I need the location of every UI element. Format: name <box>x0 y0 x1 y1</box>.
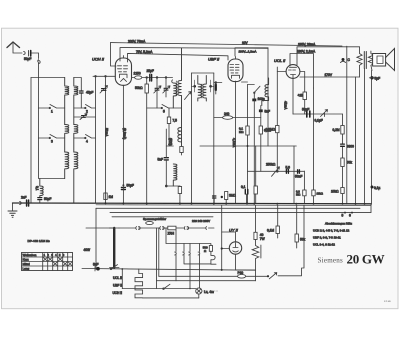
output transformer primary <box>357 47 362 77</box>
oscillator trimmer 2 <box>164 88 168 90</box>
cathode resistor 240 <box>223 116 233 120</box>
dropper bar top tick <box>110 227 120 229</box>
UBF grid stopper resistor <box>215 85 217 91</box>
tube UCH II grids <box>118 66 128 72</box>
heater dropper bar <box>113 228 115 268</box>
IF1 shield top <box>192 72 214 74</box>
detector cap 5nF <box>259 109 263 112</box>
svg-text:50k: 50k <box>347 161 353 165</box>
IF1 shield right <box>213 73 215 203</box>
resistor 50k <box>145 84 148 93</box>
oscillator trimmer 1 <box>155 88 159 90</box>
svg-text:UBF II: UBF II <box>113 284 122 288</box>
junction <box>156 77 158 79</box>
switch wire <box>122 288 196 290</box>
terminal 5 <box>344 212 346 214</box>
svg-text:Siemens: Siemens <box>318 256 343 264</box>
UCL cathode down <box>292 78 294 114</box>
svg-text:7,5: 7,5 <box>173 119 178 123</box>
padder resistor <box>167 117 170 124</box>
contact joint <box>24 52 26 55</box>
junction <box>121 268 123 270</box>
tuning box left rail <box>30 78 32 204</box>
selector resistor <box>168 226 176 230</box>
svg-text:(6,3mA): (6,3mA) <box>123 128 127 139</box>
socket contact a <box>175 244 177 281</box>
svg-text:UCL II: UCL II <box>274 58 286 63</box>
svg-text:0,1µ: 0,1µ <box>374 186 380 190</box>
bus junction dots <box>105 202 366 205</box>
shield box line 3 <box>112 216 213 218</box>
selector wire <box>86 227 115 229</box>
wire to vertical <box>278 205 304 275</box>
resistor 50k right <box>295 234 298 242</box>
tube UBF II top tick <box>235 57 237 60</box>
svg-text:180V...1,2mA: 180V...1,2mA <box>239 49 257 53</box>
rail 3 75V <box>128 53 229 62</box>
tube UBF II envelope <box>228 59 243 82</box>
pot cap <box>286 170 288 174</box>
heater chain squiggle <box>135 274 143 298</box>
svg-text:0,3MΩ: 0,3MΩ <box>266 128 276 132</box>
svg-text:DP-440 1/13 bis: DP-440 1/13 bis <box>28 239 51 243</box>
svg-text:50nF: 50nF <box>295 174 302 178</box>
tube UCL II grid <box>289 67 297 70</box>
wire antenna coil tap <box>39 138 65 179</box>
svg-text:0,1M: 0,1M <box>267 229 274 233</box>
capacitor 2nF on bus <box>27 200 29 206</box>
svg-text:51mA: 51mA <box>105 128 109 137</box>
bus components cap <box>213 196 216 198</box>
rail 180V drop <box>290 54 314 89</box>
feedback resistor 3 <box>341 188 344 194</box>
svg-text:Lang: Lang <box>23 267 30 271</box>
feedback resistor 1 <box>341 126 344 135</box>
IF1 cap left <box>193 85 196 88</box>
svg-text:5,0: 5,0 <box>286 165 291 169</box>
svg-text:200V, 76mA: 200V, 76mA <box>128 40 146 44</box>
ballast resistor 40 <box>254 232 257 239</box>
tap verticals <box>157 228 177 289</box>
svg-text:0,1: 0,1 <box>35 186 39 191</box>
svg-text:180V, 2,1mA: 180V, 2,1mA <box>297 50 316 54</box>
wire UBF to AVC <box>242 82 255 85</box>
svg-text:50µF: 50µF <box>302 108 309 112</box>
detector coil <box>262 78 269 106</box>
svg-text:40W: 40W <box>84 248 91 252</box>
svg-text:45pF: 45pF <box>86 91 93 95</box>
svg-text:3: 3 <box>51 140 53 144</box>
cathode step wire <box>184 263 211 265</box>
tube UBF II grids <box>230 65 239 73</box>
fuse to switch wire <box>246 275 268 277</box>
lamp dotted wire <box>202 290 218 292</box>
AF coupling vertical <box>303 171 305 204</box>
tube UCL II cathode <box>291 75 296 79</box>
osc tracking coil <box>178 128 182 142</box>
svg-text:UCL II: UCL II <box>113 276 122 280</box>
tube UCH II heater <box>121 79 127 82</box>
svg-text:1: 1 <box>51 110 53 114</box>
svg-text:6: 6 <box>349 214 351 218</box>
svg-text:UCH 2 3, 4-5 6, 7-8, 9-11: UCH 2 3, 4-5 6, 7-8, 9-11 12 <box>313 229 350 233</box>
urdox envelope bar <box>260 245 262 258</box>
tube UCH II cathode <box>120 74 128 78</box>
svg-text:UCH II: UCH II <box>92 57 105 62</box>
svg-text:195V, 28mA: 195V, 28mA <box>298 42 316 46</box>
junction <box>267 275 269 277</box>
svg-text:MΩ: MΩ <box>239 130 243 134</box>
main ground bus <box>13 202 372 205</box>
capacitor 50uF <box>121 187 125 189</box>
svg-text:Spannungswähler: Spannungswähler <box>143 217 166 221</box>
feedback chain vertical <box>342 114 344 204</box>
svg-text:5µF: 5µF <box>375 77 381 81</box>
svg-text:Mittel: Mittel <box>23 262 31 266</box>
svg-text:(500): (500) <box>169 138 173 145</box>
coil L2c <box>74 152 78 203</box>
band switch 1 <box>39 105 65 109</box>
resistor 0,3M <box>303 190 306 196</box>
cap 5uF speaker <box>370 76 373 79</box>
mains line bottom <box>82 269 256 271</box>
svg-text:20 GW: 20 GW <box>347 252 385 267</box>
osc transformer core <box>175 81 177 96</box>
socket contact b <box>183 244 185 264</box>
ballast feed <box>255 205 257 232</box>
svg-text:5: 5 <box>342 214 344 218</box>
rail 2 screen <box>120 48 268 62</box>
IF1 core <box>202 84 203 98</box>
socket contact c <box>189 244 191 289</box>
trimmer capacitor <box>82 116 86 118</box>
junction 50uF <box>122 184 124 186</box>
svg-text:50kΩ: 50kΩ <box>135 86 143 90</box>
tuning block right rail <box>95 76 97 203</box>
resistor 0.1M right <box>276 226 279 234</box>
svg-text:2: 2 <box>86 110 88 114</box>
ballast zigzag urdox <box>252 240 259 281</box>
speaker magnet <box>373 54 386 67</box>
tube UCH II top tick <box>122 56 124 59</box>
svg-text:1250: 1250 <box>134 72 141 76</box>
svg-text:123456: 123456 <box>44 253 67 257</box>
svg-text:+25: +25 <box>298 94 304 98</box>
wire 240 to shield <box>214 117 261 119</box>
padder switch row <box>147 105 181 109</box>
capacitor 50pF bottom <box>38 198 42 200</box>
coil L1b <box>65 125 69 153</box>
table column lines <box>43 253 68 271</box>
shield box line 1 <box>96 207 360 209</box>
svg-text:Kurz: Kurz <box>23 258 30 262</box>
osc feed resistor <box>180 147 183 153</box>
junction <box>165 77 167 79</box>
svg-text:0,1: 0,1 <box>241 185 246 189</box>
rail 195V <box>297 47 360 65</box>
svg-text:3MΩ: 3MΩ <box>229 194 236 198</box>
UCL grid wire <box>277 71 286 73</box>
coupling capacitor 45pF <box>74 78 82 109</box>
tuning box top wire <box>31 77 65 79</box>
tuning gang section 1 <box>102 89 107 91</box>
band switch 4 <box>74 135 96 139</box>
IF1 cap right <box>209 85 212 88</box>
ground <box>8 211 17 217</box>
svg-text:220 240 260V: 220 240 260V <box>192 219 210 223</box>
ground wire from bus <box>12 203 14 211</box>
line switch arrow <box>269 273 277 279</box>
long vertical 313 <box>313 88 315 203</box>
grid return wire <box>293 146 295 203</box>
svg-text:1M: 1M <box>109 195 114 199</box>
svg-text:10V: 10V <box>242 41 249 45</box>
output coupling cap <box>371 186 374 189</box>
resistor 10k mid right <box>312 190 315 196</box>
UY II wires <box>222 248 230 250</box>
anode line 170V <box>300 72 360 78</box>
svg-text:UCH II: UCH II <box>113 291 123 295</box>
IF1 shield left <box>191 73 193 203</box>
svg-text:240: 240 <box>224 112 230 116</box>
svg-text:6800: 6800 <box>347 145 354 149</box>
svg-text:5: 5 <box>163 110 165 114</box>
selector contacts right <box>176 227 214 230</box>
cathode caps <box>307 111 310 117</box>
HT rail vertical 1 <box>346 46 348 204</box>
UBF anode wires <box>235 81 237 203</box>
band switch 2 <box>74 105 96 109</box>
selector contacts <box>119 227 168 230</box>
volume pot line <box>248 170 305 172</box>
feedback cap <box>341 144 345 146</box>
svg-text:MΩ: MΩ <box>296 192 300 196</box>
svg-text:10kΩ: 10kΩ <box>317 192 323 196</box>
UY II feed vertical <box>221 205 223 270</box>
svg-text:0,2M: 0,2M <box>333 128 340 132</box>
UBF shield right drop <box>267 48 269 146</box>
AF coupling resistor <box>254 186 257 194</box>
anode wire right of UCH <box>132 77 173 79</box>
UY II cathode down <box>236 254 256 270</box>
capacitor 25uF <box>150 75 152 82</box>
svg-text:P60: P60 <box>238 271 244 275</box>
junction <box>95 76 97 78</box>
detector line down <box>253 93 255 203</box>
speaker cone <box>386 49 395 71</box>
svg-text:50pF: 50pF <box>44 197 51 201</box>
antenna lead wire <box>13 44 22 54</box>
svg-text:50pF: 50pF <box>24 57 31 61</box>
AGC line down <box>105 76 107 203</box>
detector cap 100pF <box>252 99 256 102</box>
svg-text:25µF: 25µF <box>147 69 154 73</box>
tube UCL II envelope <box>286 65 300 79</box>
smoothing cap Ca <box>342 58 345 61</box>
junction <box>105 76 107 78</box>
HT rail vertical 2 <box>355 77 357 204</box>
AVC resistor 0,1M <box>246 126 249 135</box>
AF cap <box>245 190 248 195</box>
surge resistor <box>209 246 212 252</box>
contact on bus <box>20 202 22 205</box>
mains blocking cap <box>96 267 100 271</box>
coil L1c <box>65 152 69 179</box>
dropper bar bottom tick <box>110 267 120 269</box>
terminal 6 <box>351 212 353 214</box>
junction <box>276 170 278 172</box>
tube UBF II cathode <box>232 75 240 78</box>
coil L2a secondary <box>74 78 78 125</box>
shield box line 2 <box>110 204 371 213</box>
bus lower line <box>96 204 371 207</box>
contact joint <box>38 60 40 64</box>
socket contact d lamp feed <box>198 244 200 288</box>
coil L3 wave trap <box>40 179 43 198</box>
IF osc secondary coil <box>173 164 177 186</box>
wire 50k down to bus <box>146 78 148 204</box>
left drop wire <box>95 208 97 269</box>
band switch 3 <box>39 135 65 139</box>
grid wire into UCH <box>93 75 115 77</box>
oscillator coil Lb <box>178 48 182 146</box>
resistor 1M <box>104 193 107 200</box>
wire down to band switch <box>38 63 40 108</box>
UCH cathode wire down <box>122 85 124 203</box>
wire switch column left <box>38 108 40 138</box>
svg-text:4,1mA: 4,1mA <box>232 138 236 148</box>
cathode bypass line <box>293 113 343 115</box>
svg-text:250kΩ: 250kΩ <box>266 162 276 166</box>
wire antenna to tuner <box>32 53 39 59</box>
svg-text:170V: 170V <box>325 73 333 77</box>
rail drop to UCH anode <box>111 43 117 66</box>
switched mains line <box>159 275 238 277</box>
padder cap 5nF <box>164 158 168 160</box>
svg-text:5nF: 5nF <box>265 110 271 114</box>
resistor 0,1M det <box>259 126 262 134</box>
coil L2b <box>74 125 78 153</box>
grid return vertical <box>276 67 278 171</box>
svg-text:ZRH: ZRH <box>168 232 175 236</box>
heater bus wire <box>166 228 211 246</box>
wire trimmer row <box>74 116 96 118</box>
oscillator coil La <box>173 83 177 108</box>
svg-text:75V, 5,2mA: 75V, 5,2mA <box>136 50 153 54</box>
feedback resistor 2 <box>341 158 344 167</box>
IF1 primary coil <box>198 76 202 102</box>
UY II cathode <box>233 251 239 252</box>
heater return line <box>143 297 199 299</box>
capacitor C1 50pF <box>28 51 30 57</box>
junction <box>247 145 249 147</box>
svg-text:c.t.us: c.t.us <box>384 299 391 303</box>
detector switch <box>254 86 260 92</box>
resistor to bus <box>178 187 181 194</box>
antenna <box>7 42 20 48</box>
svg-text:UBF 3, 6-9, 7-8 10-1: UBF 3, 6-9, 7-8 10-11 <box>313 236 341 240</box>
tone switch arrow <box>321 110 328 117</box>
IF trimmer arrow <box>185 92 192 100</box>
svg-text:UCL 3-4, 9 1: UCL 3-4, 9 11-12 <box>313 243 335 247</box>
coil L1a <box>65 78 69 125</box>
cathode resistor <box>303 92 307 100</box>
speaker return <box>371 71 373 205</box>
output transformer core <box>364 52 366 69</box>
table row lines <box>22 257 73 266</box>
mains switch <box>111 265 118 269</box>
heater return line <box>157 280 256 282</box>
svg-text:10kΩ: 10kΩ <box>331 190 339 194</box>
wave table frame <box>22 253 73 271</box>
table X marks <box>43 257 72 265</box>
svg-text:Ln, 4m: Ln, 4m <box>204 290 214 294</box>
tube UCH II envelope <box>115 58 131 85</box>
thermal hook <box>211 251 216 264</box>
rail 200V <box>111 43 343 46</box>
tube UY II envelope <box>229 242 241 254</box>
junction <box>146 77 148 79</box>
HT rail vertical 3 <box>364 69 366 205</box>
wire padder bottom <box>166 146 180 186</box>
svg-text:50µF: 50µF <box>127 184 134 188</box>
UY II anode <box>222 232 238 248</box>
svg-text:UBF II: UBF II <box>208 57 220 62</box>
junction <box>165 185 167 187</box>
svg-text:4: 4 <box>86 140 88 144</box>
IF1 secondary coil <box>203 76 207 102</box>
output transformer secondary <box>368 51 373 71</box>
fuse P60 <box>238 275 246 279</box>
bus components resistor <box>225 192 228 200</box>
svg-text:5nF: 5nF <box>158 158 164 162</box>
svg-text:Abschirmungen Röh:: Abschirmungen Röh: <box>325 222 352 226</box>
heater switch <box>164 284 171 289</box>
diode load line <box>200 145 296 147</box>
svg-text:5nF: 5nF <box>93 263 99 267</box>
heater chain drop <box>122 269 139 289</box>
svg-text:Wellenber.: Wellenber. <box>23 253 37 257</box>
svg-text:7W: 7W <box>260 237 265 241</box>
svg-text:0,1µF: 0,1µF <box>315 119 323 123</box>
svg-text:50k: 50k <box>300 238 306 242</box>
fuse <box>146 221 154 224</box>
grid resistor 0.1M <box>276 126 279 133</box>
resistor 1250 <box>135 76 142 79</box>
svg-text:41mA: 41mA <box>284 101 288 110</box>
svg-text:100p: 100p <box>258 97 265 101</box>
contact at osc coil <box>171 80 174 83</box>
AVC feed vertical <box>247 85 249 204</box>
dial lamp <box>196 288 202 294</box>
volume pot wiper <box>272 167 280 177</box>
UBF shield box top <box>235 48 268 56</box>
svg-text:2nF: 2nF <box>21 196 27 200</box>
